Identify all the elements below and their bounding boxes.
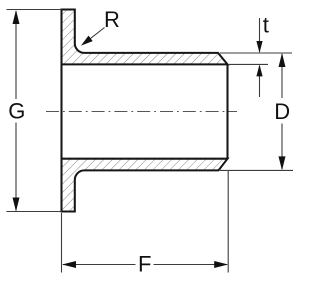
svg-text:G: G	[8, 99, 25, 124]
arrow G down	[13, 198, 20, 212]
extension line t/D top (outer surface)	[220, 52, 292, 54]
extension line t bottom (inner surface)	[229, 63, 268, 65]
centerline	[46, 111, 237, 113]
arrow G up	[13, 10, 20, 24]
extension line G top	[7, 9, 62, 11]
extension line F left	[61, 213, 63, 273]
arrow F left	[62, 261, 76, 268]
arrow D down	[279, 156, 286, 170]
svg-text:F: F	[138, 251, 151, 276]
lower cross-section (flange bottom + lower tube wall, hatched)	[62, 159, 228, 212]
flange left face (bore region edge)	[60, 64, 62, 159]
arrow t down	[256, 41, 262, 53]
extension line F right	[227, 171, 229, 273]
arrow t up	[256, 64, 262, 76]
dimension line F	[63, 264, 136, 266]
arrow R	[81, 36, 93, 46]
leader R line	[85, 28, 105, 44]
arrow F right	[214, 261, 228, 268]
dimension line G	[15, 11, 17, 99]
extension line D bottom (outer surface)	[220, 169, 293, 171]
arrow D up	[279, 53, 286, 67]
tube end face (bore region edge)	[226, 64, 228, 159]
extension line G bottom	[7, 211, 62, 213]
svg-text:R: R	[104, 7, 120, 32]
svg-text:t: t	[263, 12, 269, 37]
svg-text:D: D	[274, 99, 290, 124]
dimension line t	[259, 18, 261, 52]
dimension line D	[281, 54, 283, 98]
upper cross-section (flange top + upper tube wall, hatched)	[62, 10, 228, 65]
